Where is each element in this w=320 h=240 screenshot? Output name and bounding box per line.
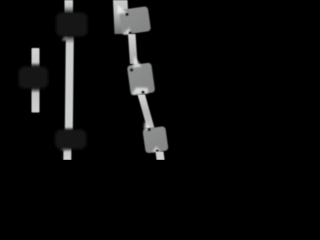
junction dot at C2 entry xyxy=(130,69,133,72)
node B1 (dark component block on wire W2) xyxy=(19,67,49,89)
node A2 (dark component block, bottom of wire W1) xyxy=(55,130,87,150)
junction dot at C3 entry xyxy=(148,128,151,131)
wire W2 (short vertical wire through node B1) xyxy=(32,48,40,113)
highlight wedge at C2 entry xyxy=(133,56,142,68)
gray wedge at node A1 exit xyxy=(62,35,68,41)
highlight wedge at C3 exit xyxy=(152,147,161,153)
highlight wedge at C3 entry xyxy=(144,122,152,130)
junction dot at C1 entry xyxy=(126,13,129,16)
wire W1 bottom stub (node A2 to bottom edge) xyxy=(63,147,71,160)
wire W3 segment d (exit connector from node C3 to bottom edge) xyxy=(156,152,165,161)
highlight wedge at C1 exit xyxy=(123,28,131,35)
wire W1 top stub (fades into node A1) xyxy=(65,0,74,14)
gray wedge at node A2 exit xyxy=(61,146,66,151)
wire W3 segment c (connector from node C2 to node C3) xyxy=(138,95,155,129)
node C1 (gray block) xyxy=(119,6,151,35)
node C2 (gray block) xyxy=(127,62,155,95)
junction dot at C2 exit xyxy=(142,91,145,94)
node C3 (gray block) xyxy=(142,126,168,153)
junction dot at C3 exit xyxy=(156,150,159,153)
highlight wedge at C1 entry xyxy=(118,5,128,15)
wire W1 mid segment (node A1 to node A2) xyxy=(65,36,74,131)
wire W3 segment b (connector from node C1 to node C2) xyxy=(128,34,138,64)
wire W3 segment a (ribbon from top edge passing behind node C1) xyxy=(113,0,129,34)
node A1 (dark component block, top of wire W1) xyxy=(56,13,88,37)
junction dot at C1 exit xyxy=(129,32,132,35)
highlight wedge at C2 exit (bottom-left) xyxy=(132,88,149,95)
